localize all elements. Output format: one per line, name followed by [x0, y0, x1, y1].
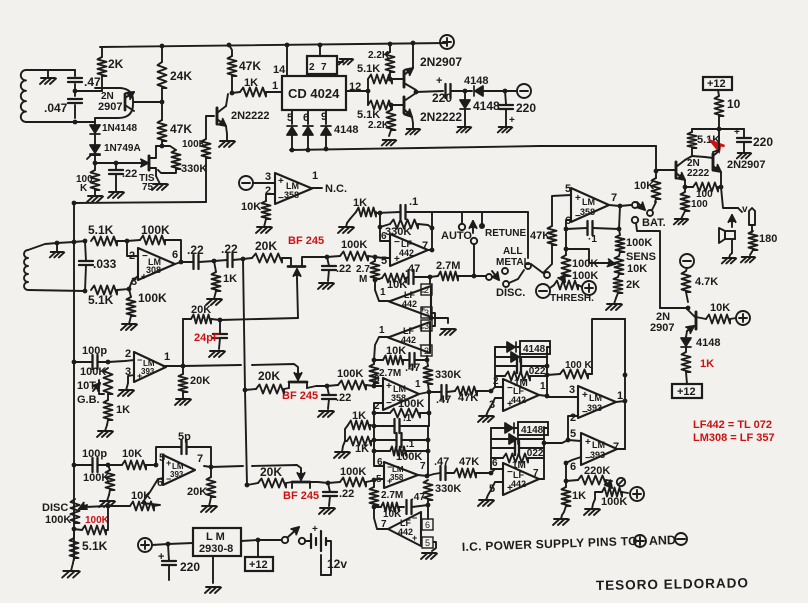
node pin6 r: [564, 227, 569, 232]
label 100K 358b: [398, 398, 424, 410]
op-amp U12 LM393c: [578, 386, 616, 418]
pins 2-7 strap box: [307, 45, 337, 76]
wire 393b out row: [204, 466, 243, 467]
node fb right 366: [545, 364, 550, 369]
wire fb sens: [566, 249, 609, 263]
label 24K: [170, 69, 192, 83]
wire fb drop 358b: [428, 392, 430, 426]
node rect in: [463, 89, 468, 94]
node wiper: [106, 504, 111, 509]
diode zener 1N749A: [87, 143, 100, 163]
label LM 393 d: [590, 440, 605, 460]
ground 180: [741, 257, 755, 262]
label 1M fb1: [514, 378, 528, 389]
op-amp U17 LF442f: [388, 512, 421, 546]
wire q10 coll drop: [685, 336, 687, 338]
boxed pin6 442f: [422, 519, 433, 530]
svg-text:.22: .22: [336, 263, 351, 275]
label 5.1K rx1: [88, 223, 114, 237]
node row2 in: [372, 384, 377, 389]
diode 4148 p9: [321, 126, 331, 149]
node .22 top: [114, 161, 119, 166]
label pin5 442e: [489, 483, 495, 495]
label BF 245 row3: [283, 490, 319, 502]
label pin6 358c: [377, 457, 383, 468]
wire 393b pin6: [142, 478, 163, 503]
label pin7 442a: [422, 240, 428, 252]
label .47 out2: [434, 456, 449, 468]
ground 4148 shunt: [457, 127, 471, 132]
label 1K red: [700, 358, 714, 370]
node r440b: [426, 438, 431, 443]
diode 4148 series: [465, 86, 505, 96]
svg-text:1: 1: [312, 170, 318, 182]
svg-text:10: 10: [727, 97, 741, 111]
wire coil2 top: [28, 243, 57, 250]
wire q5 collector q6 base: [685, 156, 713, 160]
label minus 393a: [137, 355, 142, 365]
svg-text:47K: 47K: [530, 230, 550, 242]
resistor 47K out1: [455, 387, 477, 396]
svg-text:LM: LM: [582, 197, 595, 207]
node 100p1 left: [72, 360, 77, 365]
wire out drop: [619, 206, 620, 235]
wire thr left: [550, 285, 554, 288]
node bus row2: [243, 388, 248, 393]
wire pin6 node: [566, 220, 571, 229]
label pin2 393c: [570, 412, 576, 424]
label 100 v: [691, 199, 708, 210]
speaker SP1: [719, 215, 736, 253]
terminal plus thr: [582, 281, 596, 295]
wire 442e out row: [544, 440, 568, 443]
label 5.1K disc: [82, 539, 108, 553]
jack plug: [749, 208, 755, 232]
svg-text:N.C.: N.C.: [325, 183, 347, 195]
label TIS 75: [139, 173, 155, 193]
terminal minus note: [675, 533, 687, 545]
contact am3: [544, 272, 550, 278]
label Q10 2N: [656, 311, 670, 323]
svg-text:10K: 10K: [627, 263, 647, 275]
capacitor 220 neg: [499, 91, 513, 126]
label pin6 393b: [157, 477, 163, 489]
resistor 330K osc: [158, 150, 181, 173]
wire out rx: [175, 262, 181, 264]
label minus a: [278, 193, 284, 204]
ground .22 row1: [318, 283, 334, 289]
label .22 b: [221, 242, 238, 256]
svg-text:2: 2: [424, 346, 429, 356]
label LM 393 a: [141, 359, 155, 376]
capacitor .47 int2: [403, 353, 427, 367]
resistor 47K sw: [548, 226, 557, 245]
svg-text:10K: 10K: [634, 180, 654, 192]
wire gnd bus 2: [74, 202, 206, 203]
label 5.1K a: [357, 63, 380, 75]
wire q10 emitter: [0, 0, 1, 1]
svg-text:10T: 10T: [77, 380, 96, 392]
resistor 1K cd: [232, 88, 282, 97]
label 100K thr1: [572, 258, 598, 270]
node coil bottom cap: [73, 120, 78, 125]
wire fb right: [165, 240, 181, 262]
wire 442e out: [539, 478, 544, 480]
svg-text:100K: 100K: [396, 451, 422, 463]
wire to pin2 node: [117, 240, 127, 242]
svg-text:100K: 100K: [572, 258, 598, 270]
svg-text:12v: 12v: [327, 557, 347, 571]
label pin5 442a: [381, 255, 387, 267]
wire row2 out: [307, 386, 327, 388]
label 20K row1: [255, 239, 277, 253]
label pin1 442d: [540, 381, 546, 392]
svg-text:+: +: [158, 551, 164, 563]
svg-text:393: 393: [141, 367, 155, 376]
wire out row: [416, 91, 443, 92]
label pin6: [303, 112, 309, 124]
svg-text:TESORO ELDORADO: TESORO ELDORADO: [596, 575, 749, 593]
ground stack mid: [440, 329, 456, 335]
resistor 100K r: [616, 235, 625, 256]
label LF 442 c: [401, 326, 416, 345]
label pin7 442f: [381, 519, 387, 530]
svg-text:.22: .22: [122, 168, 137, 180]
label 10K int1: [387, 279, 407, 291]
wire 393c out: [616, 401, 625, 402]
label minus 358c: [387, 462, 392, 472]
resistor 2.7M v1: [371, 257, 380, 279]
label 2N2222 q2: [231, 110, 270, 122]
svg-text:LM308 = LF 357: LM308 = LF 357: [693, 432, 775, 444]
op-amp U14 LM393a: [134, 352, 166, 382]
svg-text:.47: .47: [405, 263, 420, 275]
label THRESH.: [550, 293, 594, 304]
contact BAT: [632, 217, 638, 223]
wire thr right: [578, 285, 582, 287]
label .1 r: [588, 234, 597, 245]
ground TIS source: [152, 176, 168, 190]
label 2.2K a: [368, 50, 390, 61]
wire out bus v: [624, 319, 626, 449]
label plus 393b: [166, 458, 171, 468]
resistor 20K row2 v: [179, 366, 188, 392]
label 24pF red: [194, 332, 220, 344]
label .22 row2: [336, 392, 351, 404]
node p5 bus: [290, 148, 295, 153]
node 1K mid: [212, 259, 217, 264]
ground disc: [62, 563, 80, 578]
label 220 drv: [734, 127, 773, 149]
label pin5 393d: [570, 428, 576, 440]
boxed label 4148 fb3: [518, 422, 548, 436]
node spk node: [719, 185, 724, 190]
diode 4148 fb4: [491, 434, 544, 444]
node fb1: [378, 225, 383, 230]
wire q7 gate: [297, 279, 298, 318]
wire fb left: [127, 240, 140, 241]
resistor 24K: [158, 46, 167, 102]
transistor Q1 symbol: [125, 92, 134, 111]
node 442e in: [489, 471, 494, 476]
svg-text:.22: .22: [339, 488, 354, 500]
label 4148 series: [464, 75, 488, 87]
resistor 5.1K b: [368, 101, 392, 110]
resistor 5.1K rx1: [91, 237, 117, 246]
wire pin3 gnd: [431, 318, 448, 323]
svg-text:RETUNE: RETUNE: [485, 228, 526, 239]
wire 442d pin2: [491, 387, 503, 391]
ground .22 row3: [319, 508, 335, 514]
resistor 20K 24p: [183, 315, 211, 324]
wire pin9 drop: [325, 110, 327, 124]
svg-text:2: 2: [570, 412, 576, 424]
op-amp U7 LM358b: [383, 378, 419, 410]
resistor 100K s2fb: [374, 447, 428, 456]
wire 442a in6: [380, 227, 390, 241]
ground 1K stack1: [338, 219, 354, 233]
svg-text:5p: 5p: [178, 431, 191, 443]
label 100K rx fb: [141, 223, 170, 237]
label 20K row2 v: [190, 375, 210, 387]
label 47K out2: [459, 456, 479, 468]
arrow disc pole: [492, 271, 499, 280]
wire coil2 top row: [57, 241, 85, 243]
svg-text:47K: 47K: [458, 392, 478, 404]
wire 100K top to base: [206, 116, 214, 139]
svg-text:442: 442: [398, 527, 413, 537]
capacitor .1 358b: [374, 419, 429, 433]
op-amp U2 LM358a: [275, 173, 312, 204]
resistor 100K bias: [202, 139, 211, 202]
resistor 100K rx gnd: [127, 289, 136, 316]
contact disc in: [486, 274, 492, 280]
svg-text:100K: 100K: [572, 270, 598, 282]
label pin7 358r: [611, 192, 617, 204]
node coil2 gnd: [55, 241, 60, 246]
label pin6 393d: [570, 461, 576, 473]
svg-text:v: v: [742, 204, 748, 215]
wire 358c out: [418, 475, 427, 476]
capacitor 100p b: [74, 458, 108, 472]
resistor 1K aud: [562, 481, 571, 512]
label LM 358 r: [580, 197, 595, 217]
node sig bus top: [241, 257, 246, 262]
node left bus coil row: [72, 240, 77, 245]
wire pwr a: [152, 543, 193, 545]
node cap junction: [73, 89, 78, 94]
svg-text:100 K: 100 K: [565, 360, 592, 371]
label .47 int2: [405, 362, 420, 374]
label 10: [727, 97, 741, 111]
svg-text:220: 220: [432, 91, 452, 105]
capacitor 100p a: [74, 355, 108, 369]
capacitor 24pF: [213, 320, 227, 349]
capacitor .22 row3: [323, 483, 337, 506]
resistor 100K b: [106, 465, 115, 495]
node bus row3: [245, 483, 250, 488]
wire 393d pin5: [568, 440, 581, 441]
node disc bottom: [72, 527, 77, 532]
label METAL: [496, 257, 530, 268]
IC U1 CD4024: [282, 76, 346, 110]
wire pin14 drop: [286, 45, 288, 76]
label minus 442b: [420, 287, 425, 297]
node fbbus1 a: [372, 411, 377, 416]
wire wiper loop: [85, 506, 108, 530]
terminal plus vol: [630, 487, 644, 501]
node base a: [388, 77, 393, 82]
label 100K bias: [182, 139, 207, 150]
wire pin6 down: [565, 463, 567, 481]
red arrow annotation: [711, 141, 725, 151]
terminal plus note: [634, 535, 646, 547]
label 100K disc: [45, 514, 71, 526]
svg-text:220: 220: [516, 101, 536, 115]
svg-text:100K: 100K: [341, 239, 367, 251]
wire 47K2 to 442e: [476, 472, 491, 474]
svg-text:+12: +12: [677, 386, 696, 398]
node 393b out: [209, 465, 214, 470]
svg-text:10K: 10K: [241, 201, 261, 213]
pot THRESH: [554, 274, 578, 290]
ground Q4 emitter: [406, 117, 420, 134]
svg-text:−: −: [394, 237, 400, 248]
svg-text:3: 3: [424, 308, 429, 318]
label Q10 2907: [650, 322, 674, 334]
label pin7 442e: [533, 468, 539, 479]
ground 100 v: [674, 211, 688, 224]
resistor 100K row1: [327, 252, 375, 261]
svg-text:−: −: [137, 355, 142, 365]
label 47K sw: [530, 230, 550, 242]
svg-text:180: 180: [759, 233, 777, 245]
wire 393d pin6: [566, 457, 581, 463]
svg-text:14: 14: [273, 64, 286, 76]
svg-text:.47: .47: [436, 394, 451, 406]
svg-text:K: K: [80, 183, 88, 194]
wire speaker drop: [721, 187, 742, 212]
wire base a: [392, 78, 404, 80]
label minus 358b: [386, 398, 392, 409]
resistor 1M fb2: [491, 454, 544, 463]
svg-text:LF442 = TL 072: LF442 = TL 072: [693, 419, 772, 431]
ground 2930: [205, 587, 221, 593]
wire TIS drain: [156, 145, 162, 147]
svg-text:BF 245: BF 245: [283, 490, 319, 502]
transistor Q6 2N2907 drv: [713, 129, 721, 172]
resistor 1K spk: [682, 352, 691, 384]
node 24K bottom: [160, 100, 165, 105]
op-amp U11 LM358r: [571, 188, 609, 222]
label BF 245 row2: [282, 390, 318, 402]
resistor 1M fb1: [495, 372, 547, 381]
label 100K disc red: [85, 515, 110, 526]
label BF 245 row1: [288, 235, 324, 247]
svg-text:1: 1: [617, 390, 623, 402]
label LF 442 f: [398, 518, 413, 537]
svg-text:1M: 1M: [512, 460, 526, 471]
label .22 osc: [122, 168, 137, 180]
wire 47K top: [552, 195, 571, 226]
svg-text:2.2K: 2.2K: [368, 120, 390, 131]
node .033 bottom: [83, 289, 88, 294]
resistor 10K disc: [130, 502, 160, 511]
diode 4148 shunt: [460, 91, 470, 127]
label minus rx: [142, 251, 148, 262]
label LM 393 c: [587, 393, 602, 413]
svg-text:2N2907: 2N2907: [727, 159, 766, 171]
transistor Q3 2N2907 hi: [404, 68, 416, 90]
label 220K: [584, 465, 610, 477]
transistor Q1 2N2907 outline: [95, 88, 133, 118]
diode 4148 fb2: [495, 347, 547, 362]
svg-text:+: +: [582, 390, 588, 401]
label 100K rx gnd: [138, 291, 167, 305]
label N.C.: [325, 183, 347, 195]
capacitor .033: [79, 241, 93, 291]
label 1M fb2: [512, 460, 526, 471]
label 5.1K drv: [697, 134, 720, 146]
svg-text:SENS: SENS: [626, 251, 656, 263]
wire top supply rail: [100, 43, 447, 47]
wire 47K to 442d: [477, 390, 491, 392]
wire 358c in5: [371, 479, 384, 481]
label minus 442a: [394, 237, 400, 248]
wire gate row: [95, 162, 142, 164]
label 4148 shunt: [473, 99, 500, 113]
wire row1 out: [307, 256, 327, 258]
label 1N4148: [102, 123, 137, 134]
resistor 10K rt: [652, 171, 661, 202]
ground 220 drv: [737, 153, 751, 158]
resistor 220K: [566, 476, 612, 485]
svg-text:2907: 2907: [98, 101, 122, 113]
node r425: [372, 424, 377, 429]
label .047: [44, 101, 68, 115]
wire 442f out: [374, 507, 388, 529]
capacitor 220 drv: [737, 129, 751, 152]
svg-text:3: 3: [265, 171, 271, 183]
diode 4148 fb3: [491, 423, 518, 433]
svg-text:.047: .047: [44, 101, 68, 115]
label +12 spk: [677, 386, 696, 398]
node rail pins27: [318, 43, 323, 48]
wire 393a pin3: [128, 375, 134, 383]
node pin2 rx: [125, 239, 130, 244]
resistor 1K s1: [348, 421, 374, 430]
label pin9: [321, 111, 327, 123]
label 1N749A: [104, 143, 141, 154]
resistor 47K out2: [454, 469, 476, 478]
svg-text:47K: 47K: [170, 122, 192, 136]
wire vol right: [622, 492, 628, 493]
wire 393d out: [617, 448, 625, 450]
label 47K q: [170, 122, 192, 136]
op-amp U6 LF442c: [388, 322, 430, 353]
ground 1K mid: [206, 291, 222, 305]
node fbbus2 b: [426, 449, 431, 454]
wire pwr b: [241, 540, 281, 541]
box +12 spk: [672, 384, 702, 398]
svg-text:2: 2: [129, 250, 135, 262]
label .033: [93, 257, 117, 271]
node pin12 split: [366, 89, 371, 94]
node rail 2.2K: [388, 42, 393, 47]
svg-text:20K: 20K: [187, 486, 207, 498]
label minus 442e: [507, 467, 513, 478]
label .47 int3: [411, 492, 425, 503]
